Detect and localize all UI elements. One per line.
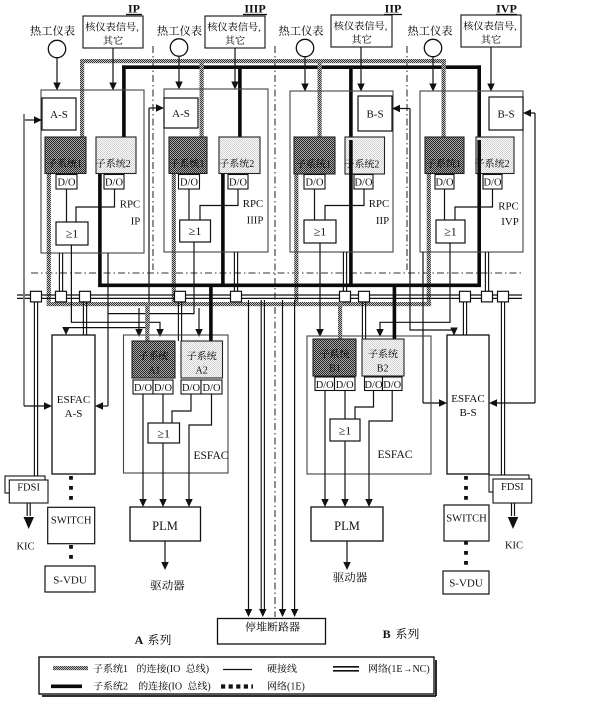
node: network coupler square 10 bbox=[498, 291, 509, 302]
box: FDSI A (with shadow box) bbox=[5, 476, 45, 493]
node: 驱动器 B bbox=[333, 572, 344, 582]
svg-text:≥1: ≥1 bbox=[444, 225, 457, 239]
legend: hardwire sample bbox=[223, 669, 252, 671]
box: D/O B2a bbox=[365, 377, 383, 391]
svg-text:PLM: PLM bbox=[334, 519, 360, 533]
svg-text:≥1: ≥1 bbox=[314, 225, 327, 239]
box: subsystem B2 (light) bbox=[362, 339, 404, 376]
wire: ch4 cabinet to ESFAC B-S left arrow bbox=[422, 252, 424, 403]
wire: voter A to PLM A bbox=[162, 443, 164, 500]
box IIIP: 子系统 1 (dark hatched) bbox=[169, 137, 207, 174]
wire: ESFAC A-S to SWITCH A (1E net dotted) bbox=[69, 476, 73, 506]
box: D/O A1b bbox=[153, 380, 173, 394]
wire: IIP thermal signal into cabinet bbox=[304, 57, 306, 84]
box: voter B ≥1 bbox=[330, 419, 360, 441]
box IVP: D/O subsystem1 bbox=[435, 175, 454, 190]
box: PLM A bbox=[130, 507, 201, 541]
box IP: RPC cabinet container bbox=[41, 90, 144, 253]
wire: ch3 cabinet to coupler6 (double) bbox=[342, 252, 344, 291]
node IP: thermal instrumentation label 热工仪表 bbox=[30, 25, 40, 35]
box IP: 子系统 1 (dark hatched) bbox=[45, 137, 86, 174]
wire: IIP D/O2 step wire to voter bbox=[325, 189, 364, 220]
box: FDSI B (with shadow box) bbox=[489, 475, 529, 492]
wire: trip feeder 1 bbox=[248, 300, 250, 610]
box: ESFAC B-S bbox=[447, 335, 489, 474]
svg-text:,: , bbox=[385, 22, 388, 33]
legend: 1E network text bbox=[268, 681, 276, 690]
wire: hatched drop ch1 bbox=[80, 59, 84, 140]
box IP: nuclear instrumentation signals 核仪表信号其它 bbox=[83, 16, 143, 48]
wire: IVP nuclear signal into cabinet bbox=[490, 47, 492, 84]
wire: thick drop into subsystem B2 bbox=[393, 287, 397, 339]
box: D/O A2b bbox=[201, 380, 222, 394]
svg-text:D/O: D/O bbox=[336, 380, 354, 391]
svg-text:SWITCH: SWITCH bbox=[446, 514, 487, 525]
wire: D/O A1b to voter A bbox=[162, 394, 164, 423]
wire: thick exit ch3 bbox=[349, 170, 353, 287]
box IP: D/O subsystem2 bbox=[104, 175, 124, 190]
wire: network bus 1E-NC (double line) bbox=[17, 294, 522, 296]
svg-text:D/O: D/O bbox=[134, 383, 152, 394]
box IIP: 子系统 1 (dark hatched) bbox=[294, 137, 335, 174]
wire: subsystem-2 IO bus top (thick) bbox=[122, 65, 481, 69]
wire: B-S ch3 link down to ESFAC B-S top bbox=[410, 109, 454, 332]
wire: trip feeder 2 (double) bbox=[260, 300, 262, 610]
wire: IIP nuclear signal into cabinet bbox=[360, 47, 362, 84]
svg-text:,: , bbox=[258, 23, 261, 34]
wire: coupler3 to ESFAC A-S (double) bbox=[82, 302, 84, 335]
svg-text:(1E→NC): (1E→NC) bbox=[388, 664, 430, 675]
box IIP: 子系统 2 (light) bbox=[345, 137, 385, 174]
svg-text:IIIP: IIIP bbox=[244, 2, 265, 16]
svg-text:B-S: B-S bbox=[366, 108, 383, 120]
svg-text:ESFAC: ESFAC bbox=[378, 449, 413, 461]
wire: dash-dot channel separator IIP/IVP bbox=[406, 46, 408, 270]
box: subsystem A2 (light) bbox=[181, 341, 223, 378]
wire: IIIP manual input arrow into A-S bbox=[149, 107, 158, 109]
svg-text:D/O: D/O bbox=[154, 383, 172, 394]
box IIIP: D/O subsystem2 bbox=[228, 175, 248, 190]
svg-text:ESFAC: ESFAC bbox=[194, 450, 229, 462]
box: ESFAC train A container bbox=[124, 335, 229, 473]
wire: IP D/O2 step wire to voter bbox=[76, 189, 115, 222]
wire: PLM A to actuators bbox=[164, 541, 166, 563]
svg-text:≥1: ≥1 bbox=[189, 224, 202, 238]
legend: subsystem2 IO bus sample bbox=[51, 684, 82, 688]
box: PLM B bbox=[311, 507, 383, 541]
svg-text:IIP: IIP bbox=[385, 2, 402, 16]
wire: ch1 voter output to subsystem A1 bbox=[71, 245, 160, 330]
svg-text:A2: A2 bbox=[196, 365, 208, 376]
svg-text:KIC: KIC bbox=[505, 541, 523, 552]
wire: coupler1 to FDSI-A (double) bbox=[33, 302, 35, 477]
box IVP: RPC cabinet container bbox=[420, 91, 523, 252]
svg-text:B2: B2 bbox=[377, 363, 389, 374]
node: network coupler square 8 bbox=[460, 291, 471, 302]
box: D/O A1a bbox=[133, 380, 153, 394]
legend: 1E-NC network text bbox=[369, 664, 377, 673]
svg-text:RPC: RPC bbox=[243, 198, 263, 210]
svg-text:IVP: IVP bbox=[496, 2, 517, 16]
wire: hatched drop ch3 bbox=[318, 63, 322, 140]
box: D/O A2a bbox=[181, 380, 201, 394]
box: subsystem A1 (dark) bbox=[132, 341, 175, 378]
svg-text:D/O: D/O bbox=[182, 383, 200, 394]
wire: D/O B2b step to PLM B bbox=[369, 391, 392, 501]
node IIP: thermal instrument circle bbox=[296, 39, 313, 56]
box: SWITCH B bbox=[444, 505, 489, 541]
wire: hatched drop ch2 bbox=[200, 63, 204, 140]
svg-text:IP: IP bbox=[131, 216, 141, 228]
svg-text:KIC: KIC bbox=[16, 542, 34, 553]
wire: ch1 cabinet to coupler2 (double) bbox=[58, 253, 60, 291]
node: network coupler square 7 bbox=[359, 291, 370, 302]
svg-text:S-VDU: S-VDU bbox=[449, 578, 483, 590]
wire: trip feeder 3 bbox=[282, 300, 284, 610]
svg-text:(IO: (IO bbox=[168, 682, 182, 693]
svg-text:FDSI: FDSI bbox=[501, 482, 524, 493]
svg-text:A1: A1 bbox=[148, 365, 160, 376]
node IIIP: thermal instrumentation label 热工仪表 bbox=[157, 25, 167, 35]
wire: A-S ch1 and ESFAC A-S hardwire (gray) bbox=[23, 114, 25, 406]
wire: IVP manual input arrow into B-S bbox=[529, 112, 535, 114]
svg-text:D/O: D/O bbox=[105, 177, 123, 188]
wire: IIIP D/O1 to voter bbox=[188, 189, 190, 220]
wire: thick exit ch1 down to lower thick bus bbox=[98, 170, 102, 287]
svg-text:D/O: D/O bbox=[355, 177, 373, 188]
node: network coupler square 4 bbox=[175, 291, 186, 302]
svg-text:D/O: D/O bbox=[316, 380, 334, 391]
wire: SWITCH B to S-VDU B (dotted) bbox=[464, 541, 468, 570]
legend: 1E-NC network double sample bbox=[333, 666, 359, 668]
wire: thick drop ch4 bbox=[477, 65, 481, 140]
svg-text:ESFAC: ESFAC bbox=[57, 394, 90, 406]
wire: trip feeder 4 bbox=[294, 300, 296, 610]
wire: coupler7 to subsystem B2 (double) bbox=[361, 302, 363, 339]
node: network coupler square 3 bbox=[80, 291, 91, 302]
wire: hatched drop into subsystem A1 bbox=[145, 302, 149, 341]
wire: IIP D/O1 to voter bbox=[314, 189, 316, 220]
node: 驱动器 A bbox=[151, 580, 162, 590]
svg-text:2: 2 bbox=[505, 159, 510, 170]
wire: lower subsystem-1 hatched IO bus bbox=[47, 302, 432, 306]
svg-text:): ) bbox=[207, 682, 210, 693]
svg-text:2: 2 bbox=[374, 159, 379, 170]
box IIIP: 子系统 2 (light) bbox=[219, 137, 260, 174]
wire: IVP D/O1 to voter bbox=[444, 189, 446, 220]
box IIIP: D/O subsystem1 bbox=[179, 175, 200, 190]
wire: subsystem-1 IO bus top (hatched) bbox=[80, 59, 446, 63]
node IVP: thermal instrument circle bbox=[424, 39, 441, 56]
wire: ch4 voter output to subsystem B2 bbox=[380, 243, 450, 330]
wire: PLM B to actuators bbox=[346, 541, 348, 563]
wire: thick exit ch4 bbox=[477, 170, 481, 285]
wire: thick drop ch3 bbox=[349, 69, 353, 140]
box IP: 子系统 2 (light) bbox=[96, 137, 136, 174]
svg-text:1: 1 bbox=[77, 159, 82, 170]
wire: hatched drop into subsystem B1 bbox=[338, 302, 342, 339]
wire: coupler8 to ESFAC B-S (double) bbox=[462, 302, 464, 335]
svg-text:1: 1 bbox=[123, 664, 128, 675]
box IVP: nuclear instrumentation signals 核仪表信号其它 bbox=[461, 15, 521, 47]
box: S-VDU B bbox=[443, 571, 489, 594]
box IIP: B-S switch bbox=[358, 96, 392, 131]
wire: dash-dot channel separator IIIP/IIP (extends to trip breakers) bbox=[274, 46, 276, 617]
box: subsystem B1 (dark) bbox=[313, 339, 356, 376]
svg-text:D/O: D/O bbox=[180, 177, 198, 188]
wire: ESFAC B-S to SWITCH B (dotted) bbox=[464, 476, 468, 504]
node: network coupler square 1 bbox=[31, 291, 42, 302]
svg-text:S-VDU: S-VDU bbox=[53, 575, 87, 587]
svg-text:2: 2 bbox=[123, 682, 128, 693]
svg-text:): ) bbox=[206, 664, 209, 675]
wire: into ESFAC A-S left bbox=[24, 405, 46, 407]
svg-text:B-S: B-S bbox=[497, 108, 514, 120]
svg-text:B: B bbox=[383, 627, 391, 641]
wire: hatched exit ch3 bbox=[294, 170, 298, 306]
legend: 1E network dotted sample bbox=[221, 684, 253, 688]
box IIIP: A-S switch bbox=[164, 98, 198, 128]
svg-text:A-S: A-S bbox=[172, 108, 190, 120]
box: voter A ≥1 bbox=[148, 423, 180, 443]
wire: ch2 cabinet to coupler5 (double) bbox=[233, 252, 235, 291]
box IIIP: nuclear instrumentation signals 核仪表信号其它 bbox=[205, 16, 265, 48]
legend: subsystem2 text bbox=[93, 682, 102, 691]
wire: bus drop arrow into subsystem A2 bbox=[198, 308, 200, 330]
box: D/O B2b bbox=[383, 377, 403, 391]
svg-text:FDSI: FDSI bbox=[17, 483, 40, 494]
wire: thick drop into subsystem A2 bbox=[209, 287, 213, 341]
svg-text:RPC: RPC bbox=[369, 198, 389, 210]
wire: D/O B1a to PLM B bbox=[324, 391, 326, 501]
svg-text:D/O: D/O bbox=[365, 380, 383, 391]
box: D/O B1b bbox=[335, 377, 356, 391]
box: ESFAC A-S bbox=[52, 335, 95, 474]
box IP: D/O subsystem1 bbox=[56, 175, 77, 190]
wire: thick line through ch3 subsystem2 bbox=[349, 140, 353, 175]
box: SWITCH A bbox=[48, 507, 95, 543]
node IP: thermal instrument circle bbox=[48, 40, 65, 57]
legend: hardwire text bbox=[267, 664, 276, 673]
svg-text:IVP: IVP bbox=[501, 216, 518, 228]
wire: ch2 voter output to train-A link bbox=[108, 242, 194, 314]
svg-text:IP: IP bbox=[128, 2, 140, 16]
wire: hatched exit ch2 bbox=[172, 170, 176, 306]
wire: ch1 cabinet to ESFAC A-S right arrow bbox=[107, 253, 109, 406]
svg-text:A-S: A-S bbox=[65, 408, 83, 420]
svg-text:ESFAC: ESFAC bbox=[451, 393, 484, 405]
box IP: A-S switch bbox=[42, 98, 76, 130]
svg-text:RPC: RPC bbox=[498, 201, 518, 213]
box IVP: 子系统 2 (light) bbox=[476, 137, 514, 174]
box IIIP: RPC cabinet container bbox=[164, 89, 268, 252]
wire: voter B to PLM B bbox=[344, 441, 346, 500]
svg-text:B1: B1 bbox=[329, 363, 341, 374]
wire: IIIP nuclear signal into cabinet bbox=[234, 48, 236, 82]
node: network coupler square 9 bbox=[482, 291, 493, 302]
svg-text:D/O: D/O bbox=[436, 177, 454, 188]
box IIP: RPC cabinet container bbox=[290, 91, 393, 252]
wire: FDSI A to KIC (double arrow) bbox=[26, 503, 28, 516]
svg-text:≥1: ≥1 bbox=[339, 424, 352, 438]
wire: inter-train thick bus bbox=[98, 283, 481, 287]
box IVP: 子系统 1 (dark hatched) bbox=[425, 137, 464, 174]
legend: subsystem1 text bbox=[93, 664, 102, 673]
svg-text:1: 1 bbox=[326, 159, 331, 170]
wire: dash-dot horizontal divider bbox=[31, 272, 524, 274]
node: network coupler square 5 bbox=[231, 291, 242, 302]
wire: thick drop ch2 bbox=[238, 69, 242, 140]
box: reactor trip breakers 停堆断路器 bbox=[218, 619, 326, 645]
svg-text:(IO: (IO bbox=[167, 664, 181, 675]
box IIP: D/O subsystem2 bbox=[354, 175, 373, 190]
wire: thick line through ch4 subsystem2 bbox=[477, 140, 481, 175]
wire: D/O B2a step to voter B bbox=[355, 391, 374, 420]
wire: into ESFAC B-S right bbox=[495, 402, 535, 404]
svg-text:B-S: B-S bbox=[459, 407, 476, 419]
wire: IVP D/O2 step wire to voter bbox=[455, 189, 493, 220]
wire: hatched exit ch1 down to lower IO bus bbox=[47, 170, 51, 306]
svg-text:D/O: D/O bbox=[58, 177, 76, 188]
node IVP: thermal instrumentation label 热工仪表 bbox=[408, 25, 418, 35]
wire: IP nuclear signal into cabinet bbox=[112, 48, 114, 83]
svg-text:IIP: IIP bbox=[376, 215, 389, 227]
wire: thick exit ch2 bbox=[221, 170, 225, 287]
wire: A-S ch2 link down to ESFAC A-S top bbox=[66, 108, 149, 330]
wire: D/O B1b to voter B bbox=[344, 391, 346, 420]
svg-text:PLM: PLM bbox=[152, 519, 178, 533]
svg-text:D/O: D/O bbox=[203, 383, 221, 394]
box: ESFAC train B container bbox=[307, 336, 431, 474]
svg-text:1: 1 bbox=[200, 159, 205, 170]
wire: hatched exit ch4 bbox=[427, 170, 431, 306]
wire: dash-dot channel separator IP/IIIP bbox=[152, 46, 154, 270]
box IVP: B-S switch bbox=[489, 97, 523, 130]
svg-text:RPC: RPC bbox=[120, 199, 140, 211]
box IIP: D/O subsystem1 bbox=[304, 175, 325, 190]
box: D/O B1a bbox=[315, 377, 335, 391]
wire: bus drop arrow into subsystem A1 left bbox=[138, 308, 140, 330]
legend: subsystem1 IO bus sample bbox=[53, 666, 88, 670]
wire: SWITCH A to S-VDU A (dotted) bbox=[69, 545, 73, 565]
svg-text:(1E): (1E) bbox=[287, 682, 305, 693]
svg-text:,: , bbox=[514, 22, 517, 33]
svg-text:1: 1 bbox=[456, 159, 461, 170]
node IIIP: thermal instrument circle bbox=[170, 39, 187, 56]
node: network coupler square 6 bbox=[340, 291, 351, 302]
wire: IIIP thermal signal into cabinet bbox=[178, 56, 180, 82]
box: S-VDU A bbox=[45, 566, 95, 592]
wire: ch4 cabinet to coupler9 (double) bbox=[484, 252, 486, 291]
wire: hatched drop ch4 bbox=[442, 59, 446, 140]
box IVP: D/O subsystem2 bbox=[483, 175, 502, 190]
svg-text:A: A bbox=[135, 633, 144, 647]
wire: B-S ch4 and ESFAC B-S hardwire bbox=[534, 113, 536, 403]
svg-text:D/O: D/O bbox=[306, 177, 324, 188]
wire: FDSI B to KIC (double arrow) bbox=[511, 503, 513, 516]
wire: IVP thermal signal into cabinet bbox=[432, 57, 434, 84]
svg-text:A-S: A-S bbox=[50, 109, 68, 121]
svg-text:SWITCH: SWITCH bbox=[51, 516, 92, 527]
svg-text:D/O: D/O bbox=[484, 177, 502, 188]
svg-text:2: 2 bbox=[126, 159, 131, 170]
wire: IIP manual input arrow into B-S bbox=[398, 108, 410, 110]
node IIP: thermal instrumentation label 热工仪表 bbox=[279, 25, 289, 35]
svg-text:,: , bbox=[136, 23, 139, 34]
svg-text:≥1: ≥1 bbox=[66, 227, 79, 241]
wire: IP D/O1 to voter bbox=[66, 189, 68, 222]
wire: ch3 voter output to subsystem B1 bbox=[319, 243, 321, 331]
svg-text:≥1: ≥1 bbox=[157, 427, 170, 441]
wire: D/O A2a step to voter A bbox=[172, 394, 191, 423]
box IIP: nuclear instrumentation signals 核仪表信号其它 bbox=[331, 15, 392, 47]
wire: D/O A1a to PLM A bbox=[142, 394, 144, 500]
svg-text:D/O: D/O bbox=[383, 380, 401, 391]
wire: IIIP D/O2 step wire to voter bbox=[200, 189, 238, 220]
svg-text:D/O: D/O bbox=[229, 177, 247, 188]
box: legend frame bbox=[39, 657, 434, 694]
svg-text:2: 2 bbox=[249, 159, 254, 170]
wire: coupler10 to FDSI-B (double) bbox=[500, 302, 502, 479]
node: network coupler square 2 bbox=[56, 291, 67, 302]
wire: thick drop ch1 bbox=[122, 65, 126, 140]
wire: D/O A2b step to PLM A bbox=[189, 394, 212, 500]
wire: IP manual input arrow into A-S bbox=[24, 119, 36, 121]
wire: coupler4 to subsystem A2 (double) bbox=[177, 302, 179, 341]
svg-text:IIIP: IIIP bbox=[247, 215, 264, 227]
wire: IP thermal signal into cabinet bbox=[56, 58, 58, 83]
